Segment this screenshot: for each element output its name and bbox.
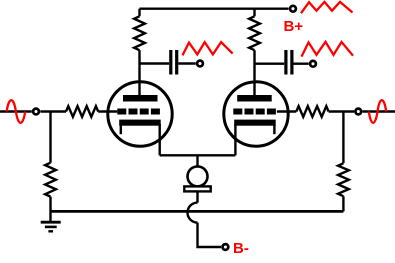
svg-text:B+: B+ (284, 18, 304, 35)
svg-text:B-: B- (233, 240, 249, 257)
